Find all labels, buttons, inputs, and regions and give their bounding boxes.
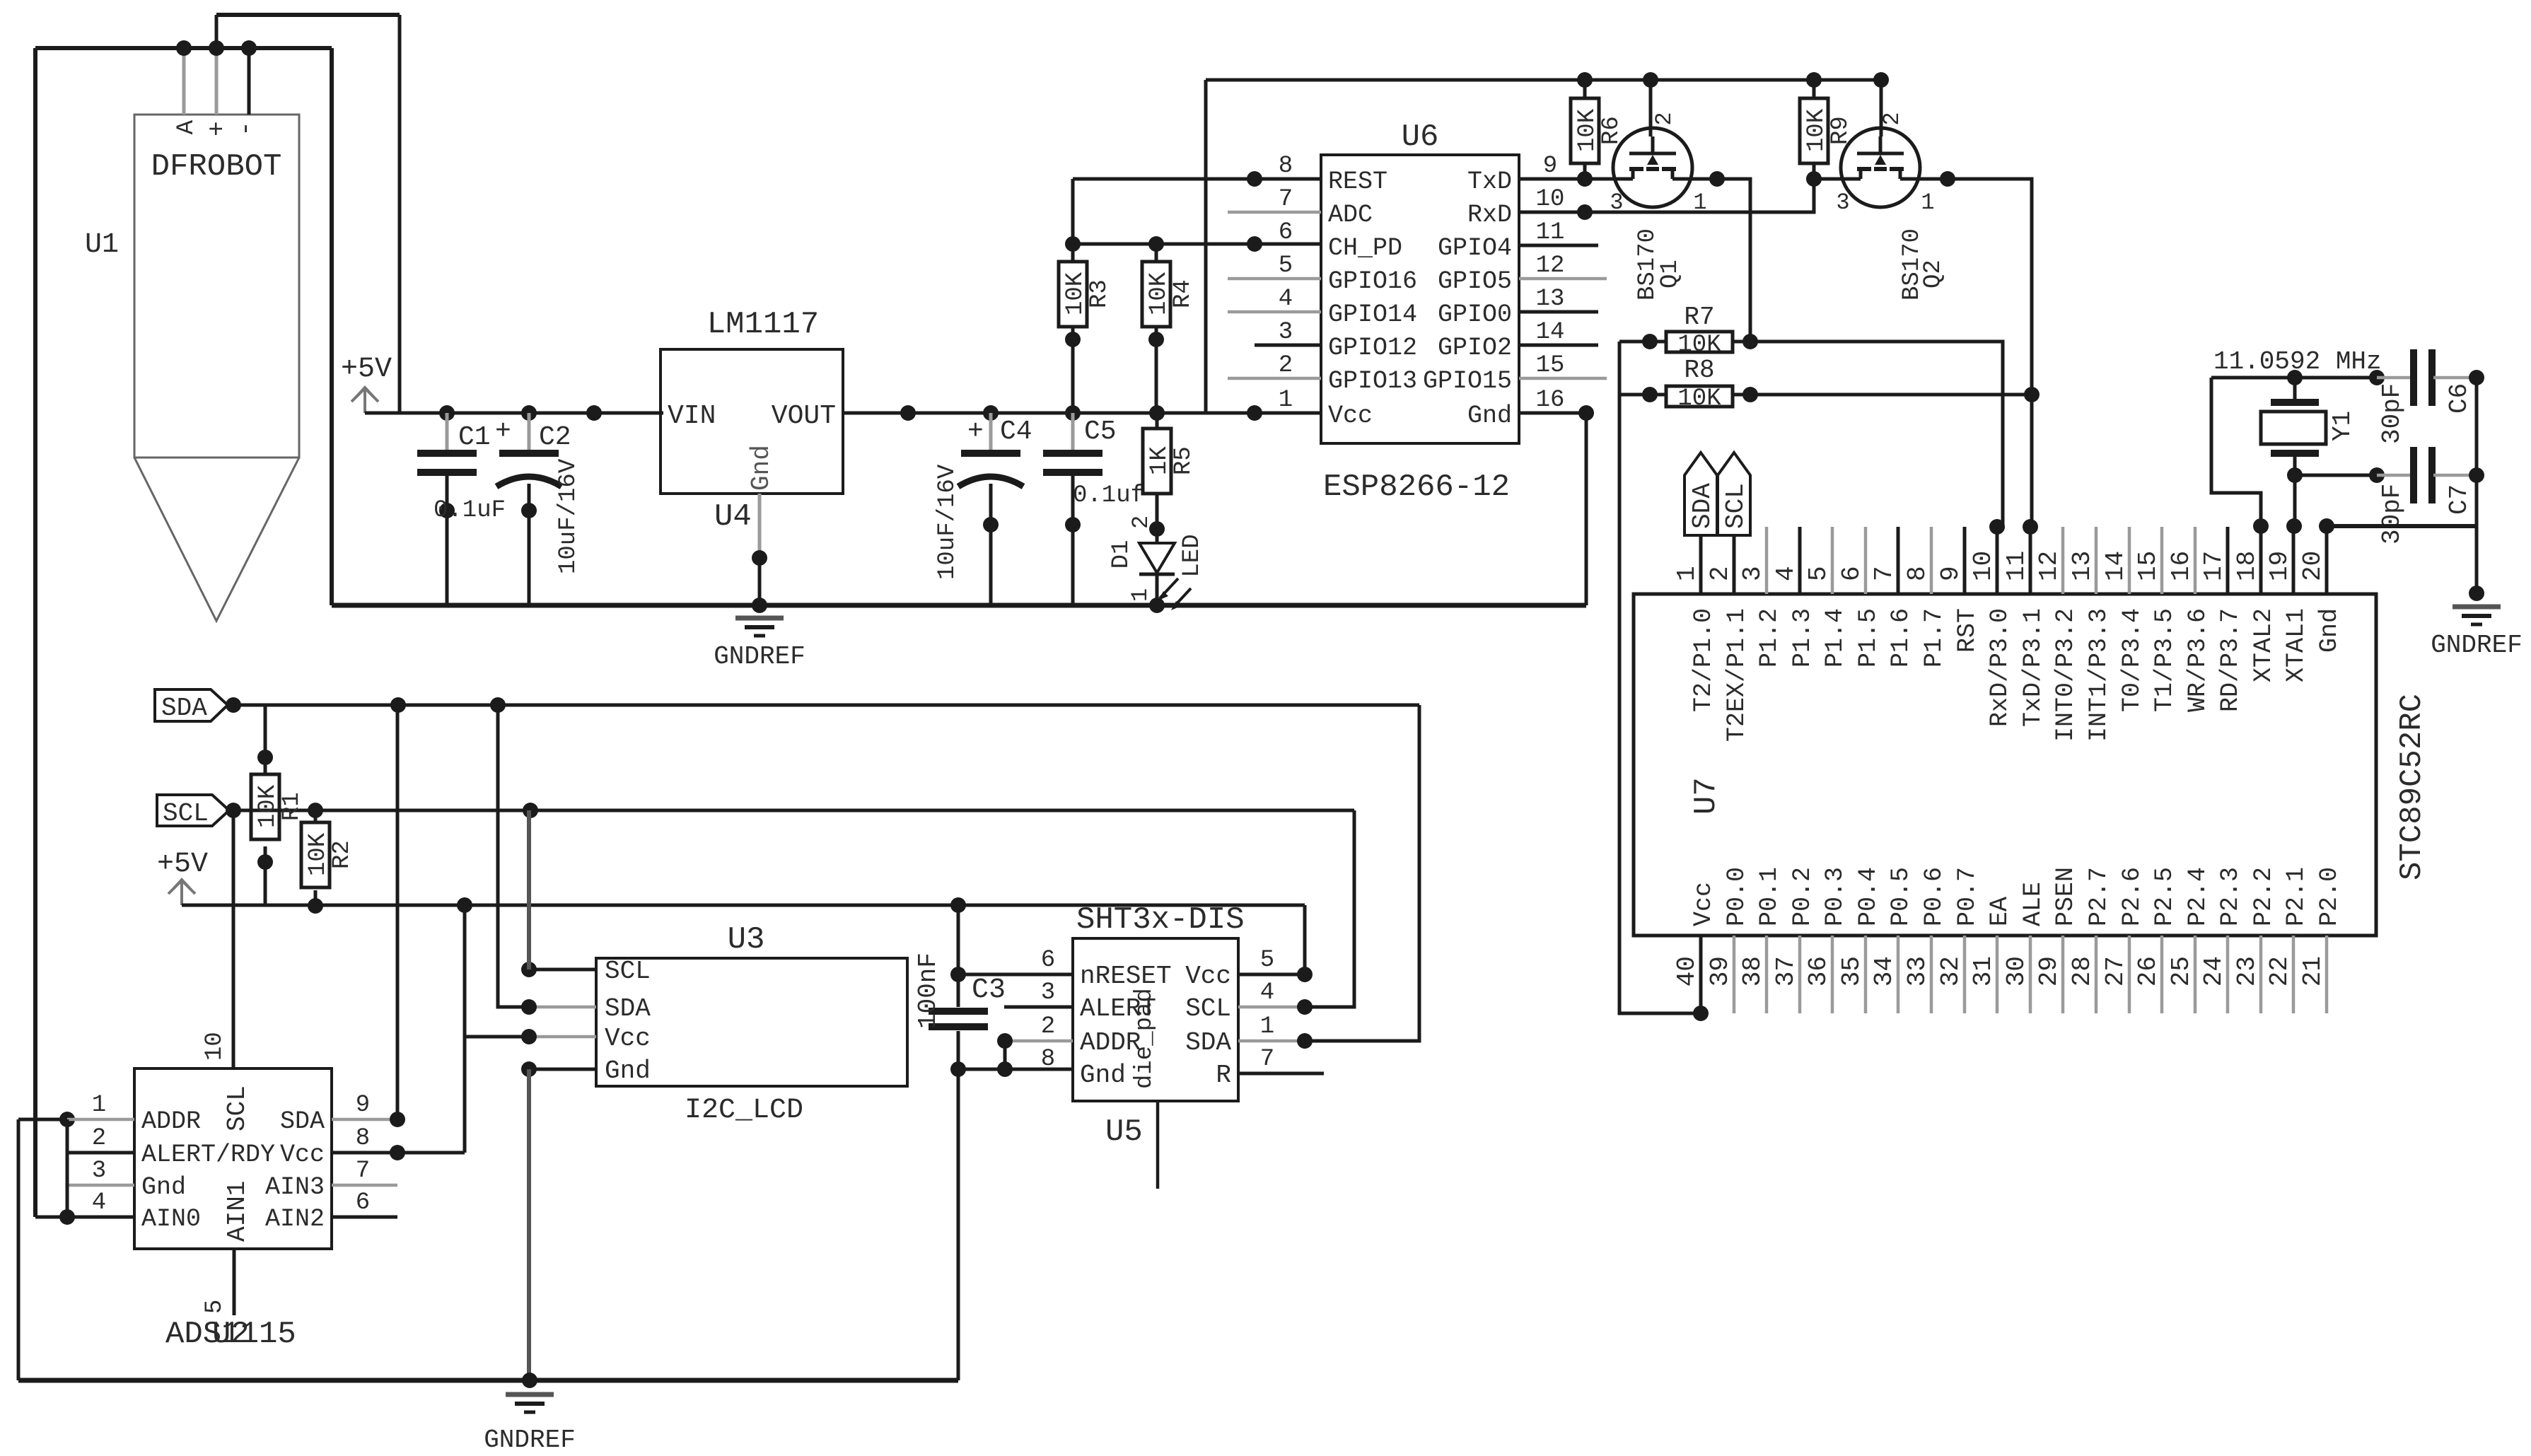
svg-text:ADC: ADC [1328, 201, 1373, 229]
svg-text:AIN3: AIN3 [265, 1173, 325, 1201]
svg-text:5: 5 [1260, 947, 1274, 974]
svg-text:WR/P3.6: WR/P3.6 [2184, 608, 2212, 712]
svg-text:4: 4 [1279, 286, 1293, 313]
svg-text:Vcc: Vcc [1328, 402, 1373, 430]
svg-text:GPIO14: GPIO14 [1328, 301, 1417, 329]
svg-text:3: 3 [1836, 190, 1849, 216]
power flag +5V (mid) [157, 849, 208, 905]
svg-text:18: 18 [2233, 551, 2262, 581]
svg-text:5: 5 [1279, 252, 1293, 279]
svg-text:SDA: SDA [1688, 483, 1717, 529]
svg-text:+: + [203, 121, 232, 136]
svg-text:1: 1 [1921, 190, 1934, 216]
svg-text:U1: U1 [85, 229, 119, 261]
svg-text:16: 16 [1536, 387, 1565, 414]
LED D1 [1108, 516, 1206, 613]
svg-text:SCL: SCL [1721, 483, 1750, 529]
wire CH_PD net [1073, 236, 1321, 252]
wire U3 SDA pin [498, 705, 596, 1015]
wire U5 nRESET [958, 973, 1073, 977]
wire Vcc riser [1204, 80, 1208, 413]
svg-text:+5V: +5V [157, 849, 208, 880]
resistor R1 [251, 705, 306, 905]
svg-text:STC89C52RC: STC89C52RC [2395, 694, 2430, 880]
wire left border vertical [33, 48, 37, 1217]
ADS AIN3 stub [332, 1184, 397, 1187]
svg-text:SDA: SDA [280, 1107, 325, 1136]
svg-text:P2.3: P2.3 [2216, 867, 2245, 926]
U1 sensor module DFROBOT box [134, 115, 299, 458]
svg-text:5: 5 [202, 1300, 228, 1314]
svg-text:26: 26 [2134, 956, 2163, 986]
U6 pin15 GPIO15 stub [1519, 377, 1607, 380]
svg-text:C1: C1 [458, 422, 491, 453]
svg-text:Vcc: Vcc [1689, 882, 1718, 926]
svg-text:13: 13 [1536, 286, 1565, 313]
svg-text:TxD: TxD [1467, 168, 1512, 196]
svg-text:2: 2 [1706, 566, 1735, 581]
svg-text:10K: 10K [1062, 272, 1089, 315]
svg-text:P0.7: P0.7 [1953, 867, 1982, 926]
wire U4 gnd lead [752, 494, 767, 605]
svg-text:15: 15 [1536, 352, 1565, 379]
U6 pin12 GPIO5 stub [1519, 277, 1607, 281]
svg-text:P1.5: P1.5 [1854, 608, 1883, 668]
wire pullup rail to U7 Vcc pin40 [1619, 342, 1709, 1021]
svg-text:24: 24 [2199, 956, 2228, 986]
wire C3 to GNDREF rail [957, 1069, 960, 1380]
U6 pin13 GPIO0 stub [1519, 310, 1598, 314]
svg-text:Gnd: Gnd [1080, 1061, 1126, 1090]
wire ADS ADDR [18, 1112, 134, 1127]
svg-text:REST: REST [1328, 168, 1387, 196]
transistor Q1 BS170 [1610, 80, 1706, 301]
ic U7 STC89C52RC box [1634, 594, 2430, 936]
svg-text:7: 7 [356, 1158, 370, 1184]
capacitor C4 electrolytic [934, 413, 1032, 605]
svg-text:P0.6: P0.6 [1920, 867, 1948, 926]
svg-text:CH_PD: CH_PD [1328, 234, 1402, 262]
svg-text:8: 8 [1903, 566, 1932, 581]
svg-text:C2: C2 [539, 422, 571, 453]
svg-text:LM1117: LM1117 [707, 307, 819, 342]
svg-text:2: 2 [1879, 112, 1905, 125]
resistor R3 [1059, 179, 1113, 413]
U5 die_pad pin [1156, 1101, 1160, 1189]
ADS Gnd stub [69, 1184, 134, 1187]
svg-text:GPIO2: GPIO2 [1438, 334, 1512, 362]
svg-text:17: 17 [2199, 551, 2228, 581]
svg-text:14: 14 [1536, 319, 1565, 346]
ground GNDREF bottom [484, 1394, 576, 1455]
svg-text:VIN: VIN [668, 401, 716, 431]
svg-text:GPIO5: GPIO5 [1438, 267, 1512, 296]
svg-text:7: 7 [1870, 566, 1899, 581]
svg-text:1: 1 [1279, 387, 1293, 414]
wire +5V to ADS/U3 Vcc [463, 905, 467, 1153]
svg-text:8: 8 [1279, 153, 1293, 180]
wire Q2 gate [1814, 177, 1842, 181]
svg-text:A: A [173, 120, 200, 134]
U5 ALERT stub [1004, 1006, 1073, 1009]
svg-text:29: 29 [2035, 956, 2064, 986]
svg-text:100nF: 100nF [914, 953, 943, 1029]
crystal Y1 [2261, 378, 2357, 475]
svg-text:U4: U4 [714, 499, 752, 535]
wire ADS AIN0 [35, 1119, 134, 1225]
svg-text:P1.3: P1.3 [1788, 608, 1817, 668]
svg-text:ESP8266-12: ESP8266-12 [1323, 470, 1510, 505]
svg-text:P1.2: P1.2 [1755, 608, 1784, 668]
svg-text:XTAL1: XTAL1 [2282, 608, 2310, 682]
U6 pin4 GPIO14 stub [1228, 310, 1321, 314]
svg-text:GNDREF: GNDREF [2431, 631, 2523, 660]
svg-text:+: + [967, 417, 984, 447]
svg-text:C4: C4 [1000, 417, 1032, 447]
resistor R7 [1619, 303, 1758, 359]
svg-text:+: + [495, 417, 511, 447]
svg-text:AIN1: AIN1 [223, 1181, 252, 1242]
wire U5 SDA [1238, 705, 1419, 1049]
svg-text:P0.2: P0.2 [1788, 867, 1817, 926]
svg-text:10K: 10K [1574, 108, 1601, 152]
svg-text:36: 36 [1804, 956, 1833, 986]
wire REST net [1073, 171, 1321, 187]
svg-text:GPIO16: GPIO16 [1328, 267, 1417, 296]
svg-text:10: 10 [1969, 551, 1998, 581]
svg-text:10K: 10K [1677, 332, 1721, 359]
svg-text:40: 40 [1672, 956, 1701, 986]
wire Q1 source to R7 [1691, 171, 1750, 342]
svg-text:5: 5 [1804, 566, 1833, 581]
svg-text:R3: R3 [1086, 279, 1113, 308]
svg-text:GPIO4: GPIO4 [1438, 234, 1512, 262]
svg-text:GPIO13: GPIO13 [1328, 367, 1417, 395]
net label SDA [155, 689, 241, 723]
svg-text:10uF/16V: 10uF/16V [934, 464, 961, 580]
ic U5 SHT3x-DIS box [1041, 902, 1274, 1150]
svg-text:10K: 10K [1803, 108, 1830, 152]
U6 pin3 GPIO12 stub [1255, 344, 1321, 347]
svg-text:P2.6: P2.6 [2118, 867, 2146, 926]
svg-text:U7: U7 [1689, 777, 1724, 815]
svg-text:T1/P3.5: T1/P3.5 [2151, 608, 2179, 712]
global label SCL at U7 pin2 [1718, 453, 1750, 594]
svg-text:SDA: SDA [605, 994, 651, 1023]
svg-text:Gnd: Gnd [605, 1056, 651, 1085]
svg-text:33: 33 [1903, 956, 1932, 986]
wire +5V rail to VIN [365, 412, 663, 415]
svg-text:P0.5: P0.5 [1887, 867, 1915, 926]
svg-text:GPIO0: GPIO0 [1438, 301, 1512, 329]
wire U1 top bus [35, 46, 332, 50]
svg-text:U6: U6 [1402, 120, 1439, 155]
svg-text:SHT3x-DIS: SHT3x-DIS [1076, 902, 1245, 938]
svg-text:11: 11 [2002, 551, 2031, 581]
svg-text:10K: 10K [305, 832, 332, 876]
svg-text:Vcc: Vcc [605, 1024, 651, 1053]
svg-text:8: 8 [356, 1125, 370, 1152]
U7 bottom pin stubs numbers and names [1672, 867, 2344, 1013]
wire top +5V from U1 plus [216, 13, 400, 17]
svg-text:10: 10 [1536, 186, 1565, 213]
wire R8 to Q2 line [1750, 387, 2040, 402]
svg-text:0.1uf: 0.1uf [1073, 482, 1145, 509]
svg-text:3: 3 [1041, 979, 1055, 1006]
svg-text:P1.6: P1.6 [1887, 608, 1915, 668]
svg-text:P2.0: P2.0 [2315, 867, 2344, 926]
svg-text:EA: EA [1986, 897, 2014, 926]
svg-text:6: 6 [356, 1189, 370, 1216]
svg-text:R2: R2 [329, 840, 356, 869]
svg-text:11.0592 MHz: 11.0592 MHz [2213, 347, 2382, 376]
U6 pin7 ADC stub [1228, 211, 1321, 214]
U7 top pin stubs numbers and names [1672, 527, 2344, 742]
svg-text:SDA: SDA [161, 694, 207, 723]
svg-text:P2.7: P2.7 [2085, 867, 2113, 926]
svg-text:1K: 1K [1146, 446, 1173, 475]
ground GNDREF right [2431, 586, 2523, 660]
svg-text:3: 3 [92, 1158, 106, 1184]
svg-text:ALE: ALE [2019, 882, 2047, 926]
svg-text:9: 9 [1936, 566, 1965, 581]
svg-text:22: 22 [2265, 956, 2294, 986]
regulator U4 LM1117 box [661, 307, 843, 535]
wire C6 C7 to ground [2475, 378, 2479, 593]
wire U3 Gnd pin [521, 1061, 596, 1380]
svg-text:32: 32 [1936, 956, 1965, 986]
svg-text:TxD/P3.1: TxD/P3.1 [2019, 608, 2047, 727]
U1 pin - stub [248, 48, 251, 115]
resistor R5 [1143, 413, 1197, 537]
U1 pin A stub [182, 48, 186, 115]
svg-text:Vcc: Vcc [1185, 962, 1231, 991]
svg-text:C5: C5 [1084, 417, 1117, 447]
svg-text:28: 28 [2068, 956, 2097, 986]
svg-text:10uF/16V: 10uF/16V [555, 458, 582, 574]
wire U3 SCL pin [521, 810, 596, 977]
svg-text:die_pad: die_pad [1131, 988, 1158, 1089]
svg-text:2: 2 [1041, 1013, 1055, 1040]
svg-text:2: 2 [1279, 352, 1293, 379]
resistor R4 [1142, 244, 1197, 413]
svg-text:R5: R5 [1170, 446, 1197, 475]
svg-text:30pF: 30pF [2378, 484, 2407, 544]
svg-text:2: 2 [1651, 112, 1677, 125]
svg-text:2: 2 [92, 1125, 106, 1152]
svg-text:T2EX/P1.1: T2EX/P1.1 [1723, 608, 1751, 742]
svg-text:25: 25 [2167, 956, 2196, 986]
resistor R2 [301, 810, 356, 914]
svg-text:C6: C6 [2445, 383, 2474, 414]
svg-text:P2.1: P2.1 [2282, 867, 2310, 926]
svg-text:4: 4 [92, 1189, 106, 1216]
svg-text:3: 3 [1279, 319, 1293, 346]
svg-text:PSEN: PSEN [2052, 867, 2080, 926]
wire U6 Gnd to rail [1519, 405, 1594, 605]
svg-text:20: 20 [2298, 551, 2327, 581]
svg-text:31: 31 [1969, 956, 1998, 986]
svg-text:P1.7: P1.7 [1920, 608, 1948, 668]
ADS AIN1 pin5 stub [202, 1249, 234, 1315]
ground GNDREF under U4 [714, 598, 805, 671]
svg-text:12: 12 [2035, 551, 2064, 581]
net label SCL [157, 795, 241, 828]
svg-text:12: 12 [1536, 252, 1565, 279]
svg-text:U2: U2 [212, 1317, 250, 1352]
svg-text:27: 27 [2101, 956, 2130, 986]
svg-text:INT0/P3.2: INT0/P3.2 [2052, 608, 2080, 742]
capacitor C2 electrolytic [495, 413, 582, 605]
wire GND rail [332, 603, 1586, 608]
svg-text:VOUT: VOUT [772, 401, 836, 431]
svg-text:SDA: SDA [1185, 1028, 1231, 1057]
svg-text:R6: R6 [1598, 116, 1625, 145]
svg-text:ADDR: ADDR [141, 1107, 201, 1136]
capacitor C6 [2377, 349, 2484, 444]
svg-text:23: 23 [2233, 956, 2262, 986]
wire XTAL top net [2211, 370, 2385, 385]
svg-text:P0.3: P0.3 [1821, 867, 1849, 926]
ADS ALERT stub [67, 1151, 134, 1155]
wire bottom GNDREF rail [18, 1373, 958, 1388]
junction dots on U1 bus [176, 40, 257, 56]
capacitor C3 [914, 905, 1006, 1077]
wire RxD net [1519, 171, 1822, 220]
U6 pin11 GPIO4 stub [1519, 244, 1598, 247]
svg-text:1: 1 [1260, 1013, 1274, 1040]
svg-text:21: 21 [2298, 956, 2327, 986]
wire U6 Vcc pin [1255, 412, 1321, 415]
svg-text:34: 34 [1870, 956, 1899, 986]
wire ADDR down left [17, 1119, 21, 1380]
svg-text:D1: D1 [1108, 540, 1135, 569]
svg-text:1: 1 [92, 1092, 106, 1119]
svg-text:R8: R8 [1684, 356, 1714, 385]
U6 pin5 GPIO16 stub [1228, 277, 1321, 281]
svg-text:10K: 10K [1677, 385, 1721, 412]
svg-text:I2C_LCD: I2C_LCD [685, 1095, 803, 1126]
svg-text:nRESET: nRESET [1080, 962, 1172, 991]
svg-text:SCL: SCL [223, 1085, 252, 1131]
ADS AIN2 stub [332, 1216, 397, 1219]
svg-text:RST: RST [1953, 608, 1982, 653]
svg-text:P0.4: P0.4 [1854, 867, 1883, 926]
svg-text:RxD: RxD [1467, 201, 1512, 229]
resistor R8 [1619, 356, 1758, 412]
svg-text:P0.0: P0.0 [1723, 867, 1751, 926]
wire R7 to U7 pin10 [1750, 342, 2003, 527]
svg-text:15: 15 [2134, 551, 2163, 581]
svg-text:DFROBOT: DFROBOT [151, 149, 282, 185]
svg-text:6: 6 [1279, 219, 1293, 246]
wire U5 Gnd [958, 1061, 1073, 1077]
svg-text:16: 16 [2167, 551, 2196, 581]
svg-text:INT1/P3.3: INT1/P3.3 [2085, 608, 2113, 742]
svg-text:Gnd: Gnd [747, 445, 776, 491]
svg-text:37: 37 [1771, 956, 1800, 986]
svg-text:U3: U3 [728, 922, 765, 957]
svg-text:39: 39 [1706, 956, 1735, 986]
svg-text:Gnd: Gnd [1467, 402, 1512, 430]
svg-text:R: R [1216, 1061, 1231, 1090]
svg-text:SCL: SCL [163, 799, 209, 828]
wire +5V mid rail [182, 897, 1305, 913]
svg-text:7: 7 [1260, 1046, 1274, 1073]
svg-text:4: 4 [1260, 979, 1274, 1006]
svg-text:C3: C3 [972, 974, 1006, 1006]
svg-text:U5: U5 [1105, 1114, 1143, 1150]
svg-text:19: 19 [2265, 551, 2294, 581]
svg-text:Vcc: Vcc [280, 1141, 325, 1169]
wire ADS SDA [332, 705, 405, 1127]
junction dots XTAL pins [2253, 518, 2302, 534]
svg-text:35: 35 [1837, 956, 1866, 986]
svg-text:1: 1 [1672, 566, 1701, 581]
svg-text:GNDREF: GNDREF [714, 642, 805, 671]
U1 reference label [85, 229, 119, 261]
svg-text:Q1: Q1 [1657, 260, 1684, 289]
svg-text:1: 1 [1127, 588, 1153, 602]
wire U3 Vcc pin [465, 1029, 596, 1044]
svg-text:-: - [231, 121, 260, 136]
svg-text:SCL: SCL [1185, 994, 1231, 1023]
power flag +5V (top) [341, 354, 392, 413]
svg-text:3: 3 [1738, 566, 1767, 581]
svg-text:10K: 10K [1146, 272, 1173, 315]
svg-text:R4: R4 [1170, 279, 1197, 308]
global label SDA at U7 pin1 [1685, 453, 1717, 594]
wire U5 ADDR [997, 1033, 1073, 1069]
svg-text:AIN0: AIN0 [141, 1205, 201, 1233]
wire top drain bus [1206, 72, 1889, 88]
svg-text:0.1uF: 0.1uF [434, 497, 506, 524]
svg-text:Gnd: Gnd [2315, 608, 2344, 653]
junction dots +5V rail [439, 405, 602, 421]
svg-text:14: 14 [2101, 551, 2130, 581]
capacitor C7 [2377, 447, 2484, 544]
ic U6 ESP8266-12 box and pin names [1279, 120, 1565, 505]
ic U2 ADS1115 box [92, 1068, 370, 1352]
U6 pin2 GPIO13 stub [1228, 377, 1321, 380]
wire XTAL1 branch [2293, 475, 2297, 526]
svg-text:RD/P3.7: RD/P3.7 [2216, 608, 2245, 712]
svg-text:30pF: 30pF [2378, 383, 2407, 444]
svg-text:2: 2 [1128, 516, 1154, 529]
svg-text:+5V: +5V [341, 354, 392, 385]
svg-text:7: 7 [1279, 186, 1293, 213]
svg-text:Q2: Q2 [1920, 260, 1947, 289]
wire U1 minus to GND rail [330, 48, 334, 605]
svg-text:SCL: SCL [605, 957, 651, 986]
svg-text:6: 6 [1041, 947, 1055, 974]
wire XTAL2 branch [2211, 378, 2261, 526]
resistor R9 [1800, 80, 1854, 179]
wire ADS SCL pin10 [202, 810, 233, 1068]
wire XTAL bottom net [2287, 467, 2385, 483]
svg-text:P0.1: P0.1 [1755, 867, 1784, 926]
wire TxD to Q1 gate [1519, 171, 1614, 187]
svg-text:30: 30 [2002, 956, 2031, 986]
wire VOUT rail [843, 412, 1255, 415]
svg-text:13: 13 [2068, 551, 2097, 581]
svg-text:R7: R7 [1684, 303, 1714, 332]
U6 pin14 GPIO2 stub [1519, 344, 1598, 347]
svg-text:T0/P3.4: T0/P3.4 [2118, 608, 2146, 712]
svg-text:6: 6 [1837, 566, 1866, 581]
wire ADS Vcc [332, 1145, 465, 1160]
svg-text:XTAL2: XTAL2 [2250, 608, 2278, 682]
